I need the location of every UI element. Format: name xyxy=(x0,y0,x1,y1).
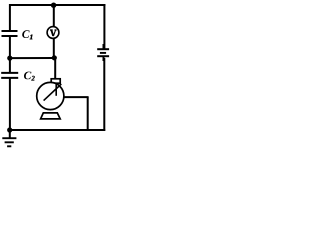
wire: bottom rail xyxy=(9,129,105,131)
wire: electrometer right lead xyxy=(64,96,89,98)
wire: ground stem xyxy=(9,130,11,138)
wire: left rail lower segment (C2 to bottom rail) xyxy=(9,78,11,131)
wire: right rail upper (top rail to battery) xyxy=(103,4,105,49)
electrometer base xyxy=(41,113,61,119)
wire: left rail upper segment (top rail to C1) xyxy=(9,4,11,31)
wire: voltmeter top stem xyxy=(53,5,55,27)
voltmeter V1 xyxy=(47,27,59,39)
electrometer needle xyxy=(44,84,62,101)
wire: stem from node to electrometer knob xyxy=(54,60,56,80)
wire: right rail lower (battery to bottom rail) xyxy=(103,58,105,131)
label C2 xyxy=(24,72,31,80)
node: top junction dot xyxy=(51,2,56,7)
wire: left rail mid segment (C1 to C2) xyxy=(9,36,11,73)
electrometer rod xyxy=(55,83,57,96)
node: left mid junction dot xyxy=(7,56,12,61)
wire: voltmeter bottom stem xyxy=(53,38,55,57)
label C1 xyxy=(22,30,29,38)
capacitor C2 xyxy=(1,73,18,78)
electrometer body circle xyxy=(37,82,64,109)
ground symbol xyxy=(2,138,16,146)
node: bottom-left junction dot xyxy=(7,127,12,132)
node: voltmeter bottom junction dot xyxy=(52,55,57,60)
wire: mid horizontal (left rail to voltmeter node) xyxy=(10,57,55,59)
label V xyxy=(50,30,57,36)
electrometer knob box xyxy=(51,79,60,83)
capacitor C1 xyxy=(2,31,18,36)
wire: right drop to bottom rail xyxy=(87,97,89,130)
battery B1 xyxy=(97,44,109,61)
wire: top rail xyxy=(9,4,105,6)
